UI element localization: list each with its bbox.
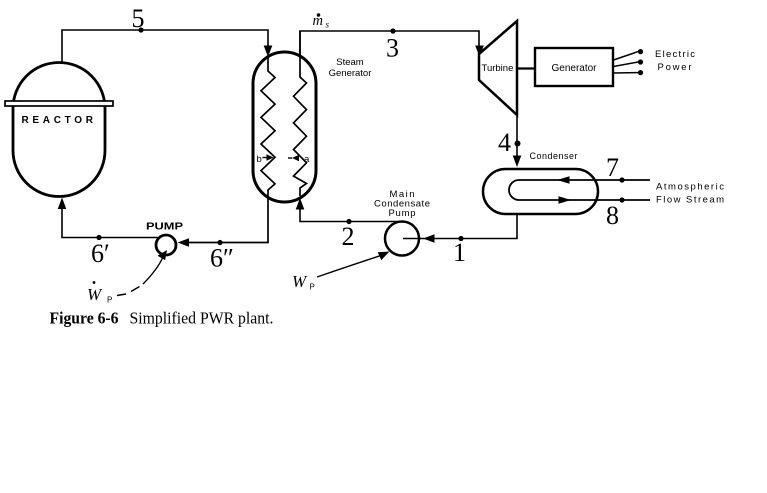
pointer label a bbox=[288, 154, 310, 165]
node 1 bbox=[453, 236, 466, 267]
arrowhead: into reactor bottom bbox=[58, 198, 67, 210]
arrowhead: into pump P1 bbox=[178, 238, 190, 247]
svg-text:Turbine: Turbine bbox=[482, 63, 514, 74]
node 8 bbox=[606, 197, 625, 230]
svg-text:1: 1 bbox=[453, 238, 466, 267]
svg-text:6″: 6″ bbox=[210, 244, 234, 273]
svg-text:s: s bbox=[326, 20, 330, 30]
steam generator label bbox=[329, 57, 372, 79]
svg-text:W: W bbox=[292, 272, 308, 291]
svg-text:Simplified PWR plant.: Simplified PWR plant. bbox=[130, 309, 274, 328]
shaft: turbine to generator bbox=[517, 67, 535, 69]
svg-text:Power: Power bbox=[658, 62, 692, 73]
node 6" bbox=[210, 240, 234, 273]
svg-text:5: 5 bbox=[132, 4, 145, 33]
svg-text:Pump: Pump bbox=[389, 208, 416, 219]
Wp label (condensate pump work) bbox=[292, 272, 315, 292]
svg-text:W: W bbox=[87, 285, 103, 304]
svg-text:b: b bbox=[257, 154, 262, 165]
electric power leads bbox=[614, 49, 644, 75]
secondary side coil (a) with steam riser bbox=[294, 31, 307, 196]
svg-text:Atmospheric: Atmospheric bbox=[656, 182, 724, 193]
wire: condenser drain to condensate pump bbox=[404, 214, 517, 239]
svg-text:Figure 6-6: Figure 6-6 bbox=[50, 309, 119, 328]
node 6' bbox=[91, 235, 110, 268]
svg-text:P: P bbox=[310, 283, 315, 292]
svg-text:7: 7 bbox=[606, 153, 619, 182]
svg-text:8: 8 bbox=[606, 201, 619, 230]
Wp label (primary pump work) bbox=[87, 281, 112, 304]
arrowhead: feedwater into steam generator bottom bbox=[296, 198, 305, 210]
wire: pump to reactor inlet (cold leg) bbox=[62, 206, 158, 238]
svg-text:2: 2 bbox=[342, 222, 355, 251]
arrow: Wp into primary pump (dashed tail) bbox=[117, 250, 167, 296]
generator G bbox=[535, 48, 613, 86]
wire: reactor outlet to steam generator top (hot leg) bbox=[62, 30, 268, 62]
wire: condensate pump to steam generator (feedwater) bbox=[300, 209, 400, 222]
node 2 bbox=[342, 219, 355, 251]
svg-text:Condenser: Condenser bbox=[530, 151, 578, 161]
svg-text:P: P bbox=[107, 296, 112, 305]
svg-text:Flow Stream: Flow Stream bbox=[656, 195, 724, 206]
mdot_s label bbox=[313, 13, 330, 30]
node 5 bbox=[132, 4, 145, 33]
pump P1 (primary pump) bbox=[156, 235, 176, 255]
svg-text:REACTOR: REACTOR bbox=[22, 115, 96, 126]
reactor flange bbox=[5, 101, 113, 106]
Atmospheric Flow Stream label bbox=[656, 182, 724, 206]
svg-text:PUMP: PUMP bbox=[146, 221, 183, 233]
node 7 bbox=[606, 153, 625, 183]
node 4 bbox=[498, 128, 521, 157]
node 3 bbox=[386, 28, 399, 62]
figure caption bbox=[50, 309, 274, 328]
svg-text:Generator: Generator bbox=[551, 63, 597, 74]
turbine T bbox=[479, 21, 517, 115]
arrowhead: cooling outflow (right) bbox=[559, 196, 572, 203]
pointer label b bbox=[257, 154, 274, 165]
arrowhead: into condensate pump bbox=[423, 234, 435, 243]
svg-text:a: a bbox=[304, 154, 310, 165]
svg-text:4: 4 bbox=[498, 128, 511, 157]
arrowhead: into turbine inlet bbox=[475, 46, 484, 58]
svg-text:Generator: Generator bbox=[329, 68, 372, 79]
main condensate pump bbox=[385, 222, 421, 256]
arrowhead: into condenser top bbox=[513, 156, 522, 168]
steam line mdot_s to turbine bbox=[300, 31, 479, 56]
wire: turbine exhaust to condenser bbox=[516, 115, 518, 158]
arrowhead: cooling inflow (left) bbox=[557, 176, 570, 183]
wire: steam generator primary outlet to pump (with coil) bbox=[186, 57, 275, 243]
steam generator vessel bbox=[253, 52, 316, 202]
main condensate pump label bbox=[374, 189, 430, 219]
condenser vessel bbox=[483, 169, 598, 214]
svg-text:6′: 6′ bbox=[91, 239, 110, 268]
arrowhead: into steam generator top bbox=[264, 46, 273, 58]
cooling water U-tube bbox=[509, 180, 650, 200]
Electric Power label bbox=[655, 49, 695, 73]
svg-text:Steam: Steam bbox=[336, 57, 364, 68]
arrow: Wp into condensate pump bbox=[317, 252, 390, 278]
reactor vessel bbox=[13, 63, 105, 197]
svg-text:3: 3 bbox=[386, 34, 399, 63]
